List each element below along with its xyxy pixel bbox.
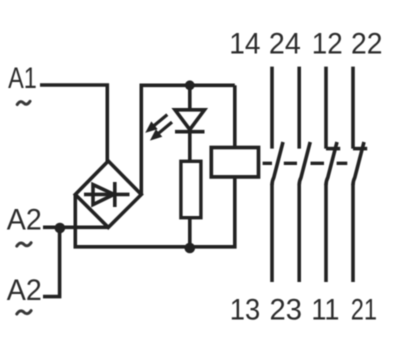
bridge diode triangle: [93, 185, 114, 205]
svg-text:21: 21: [351, 293, 377, 326]
wire from upper A2 to bridge bottom corner: [43, 226, 109, 230]
LED light arrow 2 head: [150, 129, 162, 141]
contact 12/11 bottom lead: [324, 184, 328, 282]
contact 22/21 bottom lead: [351, 184, 355, 282]
bridge diode horizontal line: [84, 193, 130, 197]
contact 14/13 bottom lead: [270, 184, 274, 282]
contact 24/23 bottom lead: [297, 184, 301, 282]
bridge rectifier diamond: [75, 161, 141, 227]
junction dot on A2 wire: [55, 223, 66, 234]
node dot top rail: [185, 80, 195, 90]
bridge diode cathode bar: [113, 182, 117, 207]
LED anode lead: [188, 85, 192, 110]
AC tilde under upper A2: [17, 243, 31, 246]
LED D2 triangle: [175, 110, 205, 130]
svg-text:A2: A2: [7, 204, 42, 237]
svg-text:22: 22: [351, 27, 383, 60]
resistor bottom lead: [188, 218, 192, 247]
wire from A1 to bridge top corner: [40, 85, 107, 162]
contact 24/23 top lead: [297, 67, 301, 149]
wire LED to resistor: [188, 132, 192, 162]
node dot bottom rail: [185, 243, 196, 254]
AC tilde under A1: [17, 101, 30, 104]
contact 22/21 blade: [353, 142, 364, 185]
svg-text:14: 14: [229, 27, 260, 60]
LED light arrow 1 shaft: [150, 115, 168, 130]
svg-text:11: 11: [311, 293, 339, 326]
svg-text:A1: A1: [8, 62, 37, 95]
svg-text:13: 13: [230, 293, 260, 326]
svg-text:A2: A2: [7, 274, 42, 307]
LED light arrow 2 shaft: [155, 122, 173, 137]
contact 12/11 top lead: [324, 67, 328, 149]
resistor R1: [181, 161, 201, 217]
svg-text:23: 23: [270, 293, 303, 326]
wire from bridge right corner up to top rail: [141, 85, 235, 194]
wire from lower A2 up to junction on A2 wire: [43, 227, 60, 296]
contact 24/23 blade: [299, 142, 310, 185]
svg-text:24: 24: [269, 27, 301, 60]
bottom rail wire to coil branch: [190, 177, 235, 247]
contact 12/11 NC stop foot: [326, 147, 340, 151]
mechanical linkage dashed line: [263, 162, 348, 165]
LED cathode bar: [175, 130, 205, 134]
svg-text:12: 12: [312, 27, 343, 60]
wire top rail down to coil: [233, 85, 237, 147]
contact 14/13 top lead: [270, 67, 274, 149]
wire from bridge left corner to bottom rail: [75, 195, 190, 247]
AC tilde under lower A2: [17, 311, 31, 314]
contact 22/21 NC stop foot: [353, 147, 367, 151]
contact 14/13 blade: [272, 142, 283, 185]
LED light arrow 1 head: [145, 121, 157, 132]
contact 12/11 blade: [326, 142, 337, 185]
relay coil K1: [211, 148, 258, 177]
contact 22/21 top lead: [351, 67, 355, 149]
